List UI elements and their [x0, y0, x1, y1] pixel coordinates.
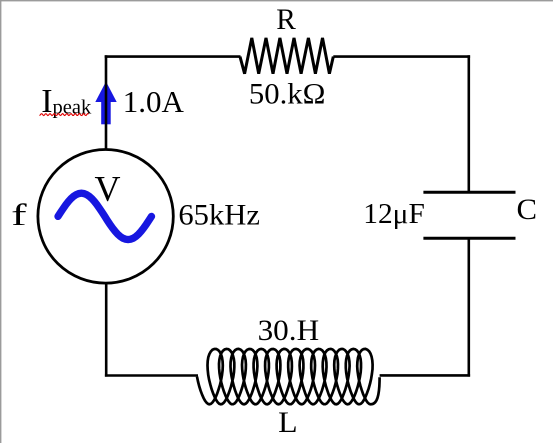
inductor L coil: [197, 349, 380, 404]
wire right vertical upper (to capacitor): [467, 55, 470, 192]
wire top horizontal right segment: [333, 55, 470, 58]
resistor R zigzag: [240, 38, 333, 74]
svg-text:C: C: [517, 193, 538, 226]
page border top: [0, 0, 553, 1]
current arrow Ipeak (blue): [95, 82, 116, 125]
AC source circle V: [38, 150, 173, 284]
wire bottom horizontal left segment: [105, 374, 198, 377]
svg-text:30.H: 30.H: [258, 314, 320, 347]
svg-text:65kHz: 65kHz: [178, 199, 260, 232]
svg-text:f: f: [11, 198, 27, 233]
spellcheck squiggle under Ipeak: [40, 114, 89, 116]
wire left vertical lower (bottom to source): [105, 283, 108, 377]
sine wave symbol (blue): [58, 193, 152, 239]
wire bottom horizontal right segment: [380, 374, 471, 377]
svg-text:V: V: [95, 168, 121, 208]
svg-text:L: L: [278, 406, 298, 439]
capacitor C top plate: [423, 191, 515, 194]
capacitor C bottom plate: [423, 237, 515, 240]
svg-text:12μF: 12μF: [363, 198, 425, 230]
page border left: [0, 0, 1, 443]
svg-text:1.0A: 1.0A: [123, 84, 185, 119]
svg-text:R: R: [276, 3, 296, 36]
wire top-left vertical (source top to top wire): [105, 55, 108, 150]
wire right vertical lower (capacitor to bottom): [467, 238, 470, 376]
svg-text:50.kΩ: 50.kΩ: [249, 77, 326, 110]
wire top horizontal left segment: [105, 55, 241, 58]
